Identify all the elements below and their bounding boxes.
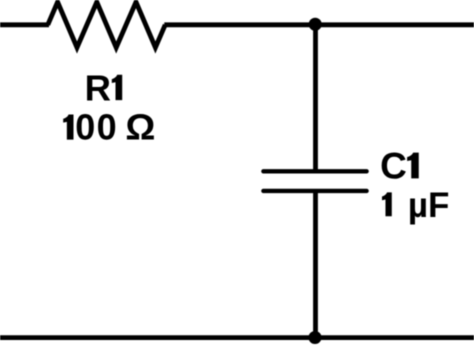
capacitor C1 top plate bbox=[263, 169, 366, 173]
svg-text:Ω: Ω bbox=[125, 107, 155, 147]
label 1 µF bbox=[382, 186, 449, 225]
wire: bottom rail across full width bbox=[0, 335, 474, 340]
label 100 Ω bbox=[63, 107, 155, 148]
resistor R1 bbox=[48, 2, 165, 48]
node B: bottom junction dot bbox=[308, 331, 321, 344]
svg-text:µF: µF bbox=[408, 186, 450, 225]
svg-text:0: 0 bbox=[97, 107, 117, 148]
label C1 bbox=[380, 146, 419, 187]
wire: top-left segment from left edge to resistor bbox=[0, 22, 49, 27]
svg-text:0: 0 bbox=[75, 107, 95, 148]
svg-text:C: C bbox=[380, 146, 407, 187]
wire: vertical from capacitor bottom plate to node B bbox=[313, 191, 318, 338]
svg-text:R: R bbox=[85, 67, 111, 108]
label R1 bbox=[85, 67, 123, 108]
node A: top junction dot bbox=[309, 18, 322, 31]
capacitor C1 bottom plate bbox=[263, 189, 366, 193]
wire: top segment from resistor through node A to right edge bbox=[164, 22, 474, 27]
wire: vertical from node A down to capacitor top plate bbox=[313, 24, 318, 171]
